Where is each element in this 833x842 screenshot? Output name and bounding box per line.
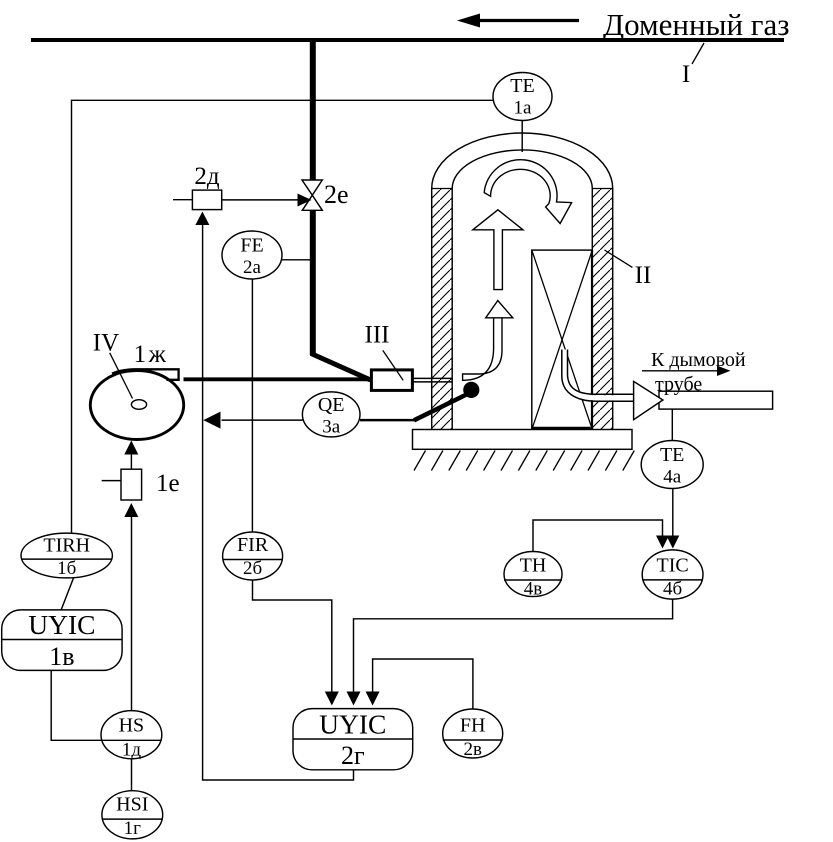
svg-text:UYIC: UYIC [319, 709, 386, 740]
main gas header line I [31, 38, 784, 42]
TIRH 1б [21, 533, 112, 578]
svg-text:FH: FH [460, 715, 486, 737]
device 2д box [192, 190, 221, 210]
svg-text:HS: HS [119, 715, 145, 737]
svg-text:1a: 1a [514, 98, 533, 119]
signal line from 2д down and to UYIC 2г [203, 225, 354, 780]
valve 2е (bowtie) [302, 180, 322, 195]
wall hatch left [432, 189, 453, 430]
svg-text:1б: 1б [57, 558, 76, 579]
svg-text:TH: TH [520, 555, 547, 577]
signal line 2д to valve 2е with arrow [222, 199, 299, 201]
svg-text:3a: 3a [322, 417, 341, 438]
TE 4a [641, 441, 703, 489]
svg-text:TE: TE [510, 75, 534, 97]
svg-text:TIRH: TIRH [43, 535, 90, 557]
fan hub [131, 400, 146, 410]
big curved circulation arrow [484, 160, 571, 224]
svg-text:HSI: HSI [116, 794, 148, 816]
svg-text:2д: 2д [194, 163, 220, 190]
svg-text:III: III [365, 322, 390, 349]
svg-text:1д: 1д [122, 740, 142, 761]
UYIC 2г controller [293, 709, 413, 770]
label I with pointer [692, 43, 704, 64]
svg-text:2б: 2б [243, 558, 262, 579]
TH 4в [504, 552, 562, 597]
svg-text:1е: 1е [156, 470, 180, 497]
line duct to TE 4a [671, 410, 673, 441]
UYIC 1в controller [2, 610, 122, 671]
FIR 2б [223, 532, 283, 580]
smoke pipe from checker through wall [565, 350, 633, 398]
outer shell lines [431, 189, 433, 430]
stove vessel II [432, 133, 613, 430]
svg-text:4a: 4a [663, 467, 682, 488]
flow element FE 2a [222, 231, 282, 279]
stove base [413, 430, 633, 450]
flow direction arrow [478, 19, 579, 22]
svg-text:2г: 2г [341, 741, 365, 770]
thick air line from fan to burner III [184, 377, 373, 381]
FH 2в [443, 709, 503, 758]
svg-text:TIC: TIC [656, 555, 688, 577]
arrow up into fan [124, 441, 138, 455]
signal line TE1a to TIRH [72, 100, 494, 533]
stub line left of 1е [102, 480, 121, 482]
QE 3a analyser [302, 392, 360, 437]
HS 1д [101, 711, 162, 759]
svg-text:Доменный газ: Доменный газ [603, 7, 790, 42]
exhaust duct to chimney [659, 391, 773, 409]
TE 1a probe line [521, 121, 523, 153]
svg-text:трубе: трубе [655, 374, 702, 396]
big rising hollow arrow [473, 210, 523, 290]
TIC 4б [642, 550, 703, 599]
line UYIC 1в to HS [51, 670, 101, 740]
dome inner arc [452, 150, 592, 189]
line TIC to UYIC 2г [354, 599, 673, 692]
svg-text:I: I [682, 61, 690, 88]
svg-text:FIR: FIR [237, 534, 269, 556]
wall hatch right [592, 189, 612, 430]
HSI 1г [102, 791, 163, 839]
TE 1a temperature element [493, 73, 552, 121]
svg-text:QE: QE [318, 394, 345, 416]
line TE 4a to TIC with arrow [672, 488, 674, 536]
line FH to UYIC 2г [373, 659, 473, 709]
svg-text:II: II [635, 262, 652, 289]
line FE down to FIR [251, 279, 253, 532]
svg-text:1г: 1г [124, 818, 142, 839]
line FE to pipe [282, 259, 310, 261]
svg-text:4б: 4б [663, 579, 682, 600]
svg-text:К дымовой: К дымовой [651, 349, 746, 371]
svg-text:IV: IV [93, 330, 119, 357]
label II with pointer [605, 250, 633, 267]
line FIR to UYIC 2г [253, 580, 332, 692]
svg-text:2в: 2в [463, 739, 482, 760]
svg-text:1в: 1в [49, 642, 74, 671]
svg-text:4в: 4в [524, 579, 543, 600]
svg-text:FE: FE [240, 235, 263, 257]
double pipe from III into furnace [412, 377, 452, 379]
svg-text:2a: 2a [243, 257, 262, 278]
sample point dot [463, 382, 479, 398]
svg-text:2е: 2е [324, 180, 349, 209]
ground hatching [414, 451, 634, 471]
svg-text:1ж: 1ж [134, 341, 169, 368]
svg-text:UYIC: UYIC [28, 609, 95, 640]
QE output line with left arrow [222, 419, 303, 421]
arrow up into 1е from HS [124, 503, 138, 517]
actuator 1е box [121, 469, 142, 500]
burner III box [371, 370, 412, 391]
svg-text:TE: TE [660, 444, 684, 466]
line HS to HSI [131, 759, 133, 791]
line TIRH to UYIC 1в [61, 578, 73, 610]
thick gas pipe below valve [310, 210, 316, 355]
stub line left of 2д [173, 199, 192, 201]
thick gas pipe down to valve [310, 42, 316, 181]
arrow up into 2д [195, 212, 209, 226]
QE sample line to furnace [360, 419, 415, 422]
small curved hollow arrow [463, 317, 502, 380]
fan IV [90, 371, 183, 440]
dome outer arc [432, 133, 613, 189]
checker (heat exchanger) box with X [532, 250, 593, 430]
line TH to TIC with arrow [533, 520, 663, 552]
thick diagonal pipe to burner III [311, 354, 371, 381]
